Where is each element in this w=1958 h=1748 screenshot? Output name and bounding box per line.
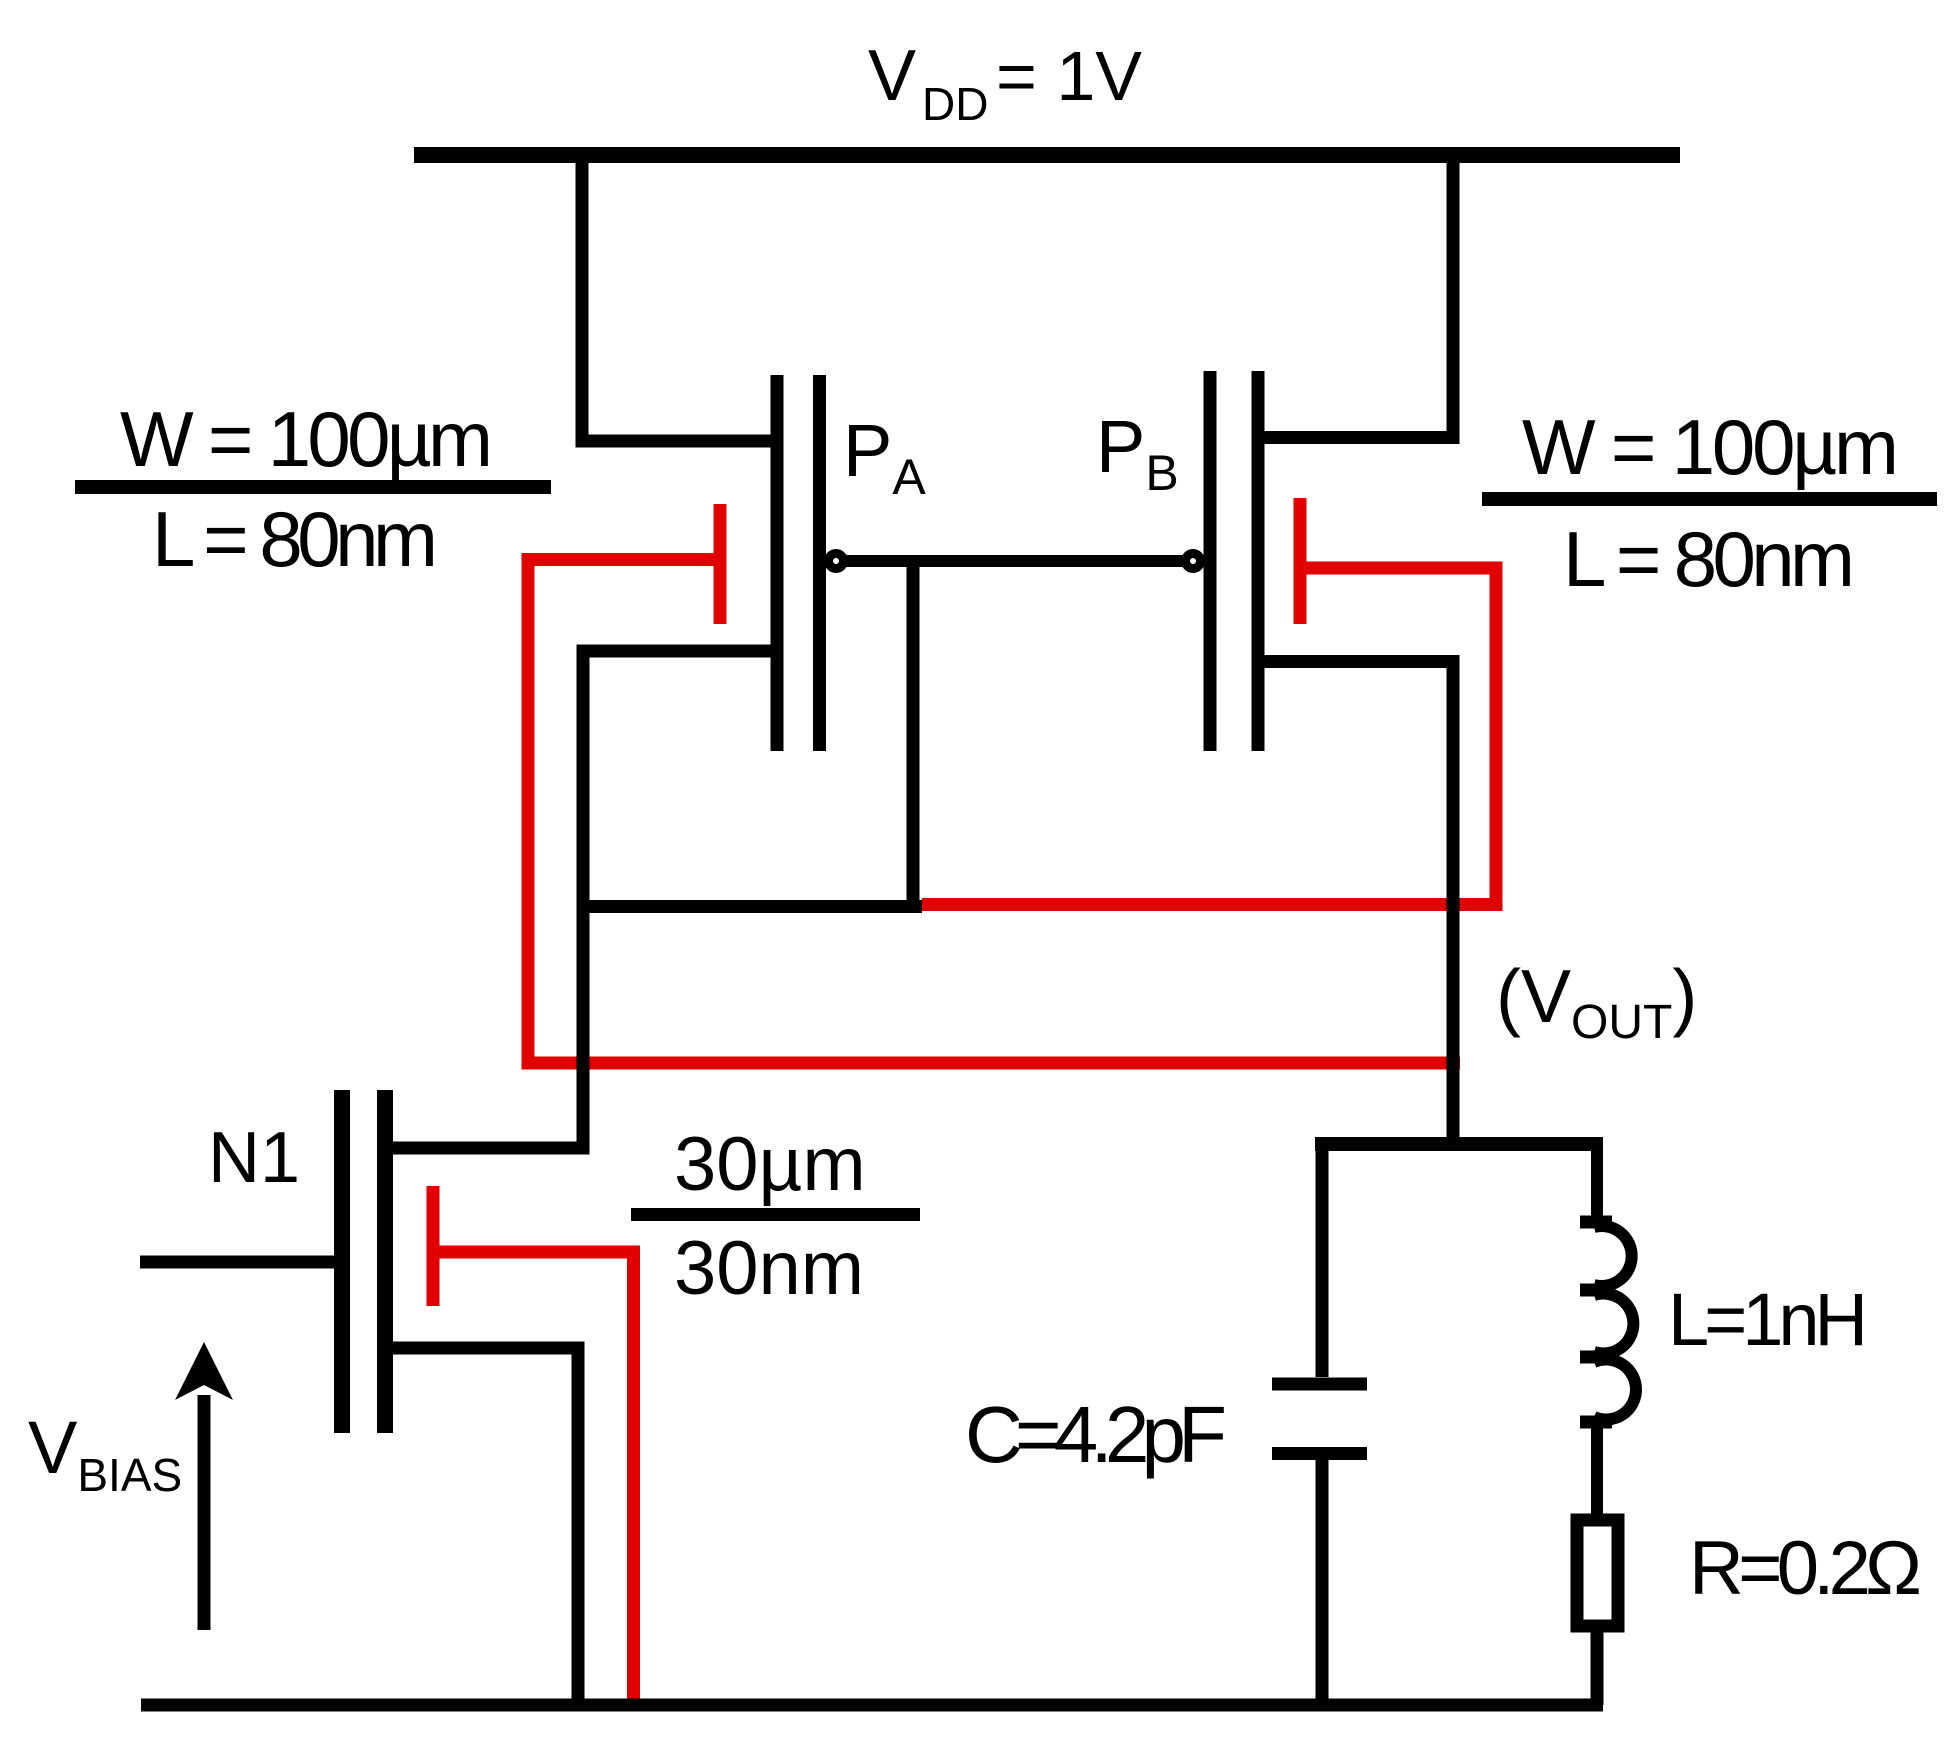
svg-text:W = 100µm: W = 100µm [120,395,493,483]
svg-text:VDD= 1V: VDD= 1V [868,36,1142,130]
svg-text:L = 80nm: L = 80nm [1563,515,1855,603]
svg-text:(VOUT): (VOUT) [1496,954,1697,1049]
svg-text:PA: PA [843,409,926,505]
svg-text:L = 80nm: L = 80nm [152,495,438,583]
svg-text:PB: PB [1096,405,1179,501]
svg-text:30µm: 30µm [674,1122,866,1207]
svg-text:C=4.2pF: C=4.2pF [965,1390,1227,1479]
svg-text:30nm: 30nm [674,1226,864,1311]
svg-text:R=0.2Ω: R=0.2Ω [1689,1526,1922,1611]
svg-text:L=1nH: L=1nH [1668,1278,1868,1361]
svg-text:N1: N1 [208,1118,300,1198]
svg-text:W = 100µm: W = 100µm [1522,403,1899,491]
svg-text:VBIAS: VBIAS [28,1406,182,1501]
